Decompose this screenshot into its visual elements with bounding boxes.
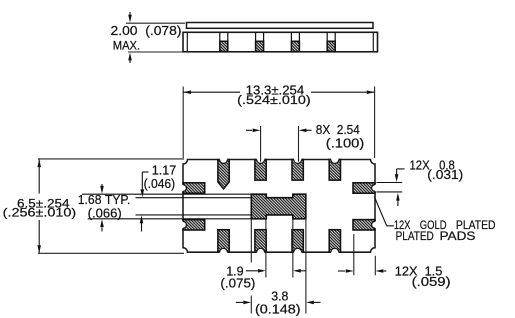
dim 8X 2.54 arrows — [246, 129, 312, 133]
dim 1.9 arrow left — [293, 269, 306, 273]
svg-text:(.524±.010): (.524±.010) — [237, 93, 311, 107]
dim 12X 0.8 pad edge line bottom — [376, 191, 402, 193]
dim 12X 1.5 extension line left — [353, 234, 355, 275]
castellation notch right lower — [372, 221, 379, 228]
side view body left inner wall — [186, 32, 188, 52]
dim 6.5 line with arrows — [37, 159, 41, 253]
castellation notch bottom 3 — [294, 248, 302, 256]
svg-text:MAX.: MAX. — [113, 38, 140, 52]
dim 2.00 MAX extension line top — [126, 22, 185, 24]
dim 6.5 extension line bottom — [38, 252, 184, 254]
leader 12X GOLD PLATED — [374, 197, 394, 226]
trace line D (outer bottom) — [88, 218, 252, 220]
svg-text:(0.148): (0.148) — [255, 302, 301, 317]
dim 1.17 bracket leader — [141, 172, 149, 197]
svg-text:(.031): (.031) — [427, 167, 463, 182]
castellation notch left lower — [180, 221, 187, 228]
castellation notch bottom 1 — [220, 248, 228, 256]
dim 8X 2.54 extension line left — [260, 126, 262, 162]
bottom pad P5 — [218, 230, 229, 253]
dim 1.17 arrow up — [140, 215, 144, 231]
svg-text:(.066): (.066) — [88, 206, 122, 221]
side view lid — [187, 23, 374, 29]
dim 8X 2.54 extension line right — [298, 126, 300, 162]
svg-text:(.046): (.046) — [144, 176, 176, 191]
dim 1.68 arrow down — [100, 184, 104, 194]
dim 12X 1.5 arrow left — [376, 269, 387, 273]
side view pad SP2 — [256, 32, 264, 51]
dim 13.3 extension line right — [374, 87, 376, 159]
dim 12X 1.5 extension line right — [374, 256, 376, 275]
castellation notch top 4 — [331, 156, 339, 164]
top pad P1 (pin 1, pointed) — [218, 160, 229, 189]
trace line B (inner top) — [136, 197, 252, 199]
dim 2.00 MAX arrow up — [128, 53, 132, 63]
dim 3.8 extension line right — [305, 219, 307, 314]
svg-text:(.256±.010): (.256±.010) — [3, 206, 77, 220]
left pad P10 — [183, 220, 205, 230]
castellation notch top 2 — [257, 156, 265, 164]
side view pad SP1 — [220, 32, 228, 51]
top pad P2 — [255, 160, 266, 181]
castellation notch right upper — [372, 185, 379, 192]
dim 6.5 extension line top — [38, 158, 184, 160]
top pad P3 — [292, 160, 303, 181]
dim 3.8 arrow right — [236, 301, 251, 305]
dim 3.8 arrow left — [306, 301, 320, 305]
svg-text:(.075): (.075) — [220, 275, 255, 290]
dim 1.68 arrow up — [100, 219, 104, 231]
package outline — [183, 160, 375, 253]
svg-text:2.00 (.078): 2.00 (.078) — [111, 23, 182, 38]
castellation notch top 3 — [294, 156, 302, 164]
dim 3.8 extension line left — [250, 219, 252, 263]
left pad P9 — [183, 183, 205, 193]
dim 1.9 arrow right — [246, 269, 266, 273]
dim 1.9 extension line left — [265, 219, 267, 278]
dim 2.00 MAX arrow down — [128, 12, 132, 23]
side view body right inner wall — [372, 32, 374, 52]
trace line C (inner bottom) — [136, 214, 252, 216]
castellation notch top 1 — [220, 156, 228, 164]
dim 12X 0.8 bracket leader with arrow — [395, 169, 405, 182]
bottom pad P7 — [292, 230, 303, 253]
right pad P11 — [353, 183, 375, 193]
bottom pad P6 — [255, 230, 266, 253]
side view body — [183, 32, 378, 52]
side view pad SP3 — [291, 32, 299, 51]
right pad P12 — [353, 220, 375, 230]
trace line A (outer top) — [82, 193, 251, 195]
svg-text:(.059): (.059) — [412, 274, 451, 289]
bottom pad P8 — [329, 230, 340, 253]
dim 13.3 extension line left — [182, 87, 184, 159]
castellation notch left upper — [180, 185, 187, 192]
dim 12X 0.8 arrow up — [396, 193, 400, 206]
side view pad SP4 — [327, 32, 335, 51]
dim 12X 0.8 pad edge line top — [376, 182, 402, 184]
svg-text:(.100): (.100) — [326, 135, 365, 150]
dim 13.3 line with arrows — [183, 90, 374, 94]
dim 2.00 MAX extension line bottom — [128, 51, 183, 53]
dim 1.9 extension line right — [292, 219, 294, 278]
center dogbone pad — [251, 194, 305, 219]
top pad P4 — [329, 160, 340, 181]
castellation notch bottom 2 — [257, 248, 265, 256]
castellation notch bottom 4 — [331, 248, 339, 256]
dim 12X 1.5 arrow right — [338, 269, 354, 273]
